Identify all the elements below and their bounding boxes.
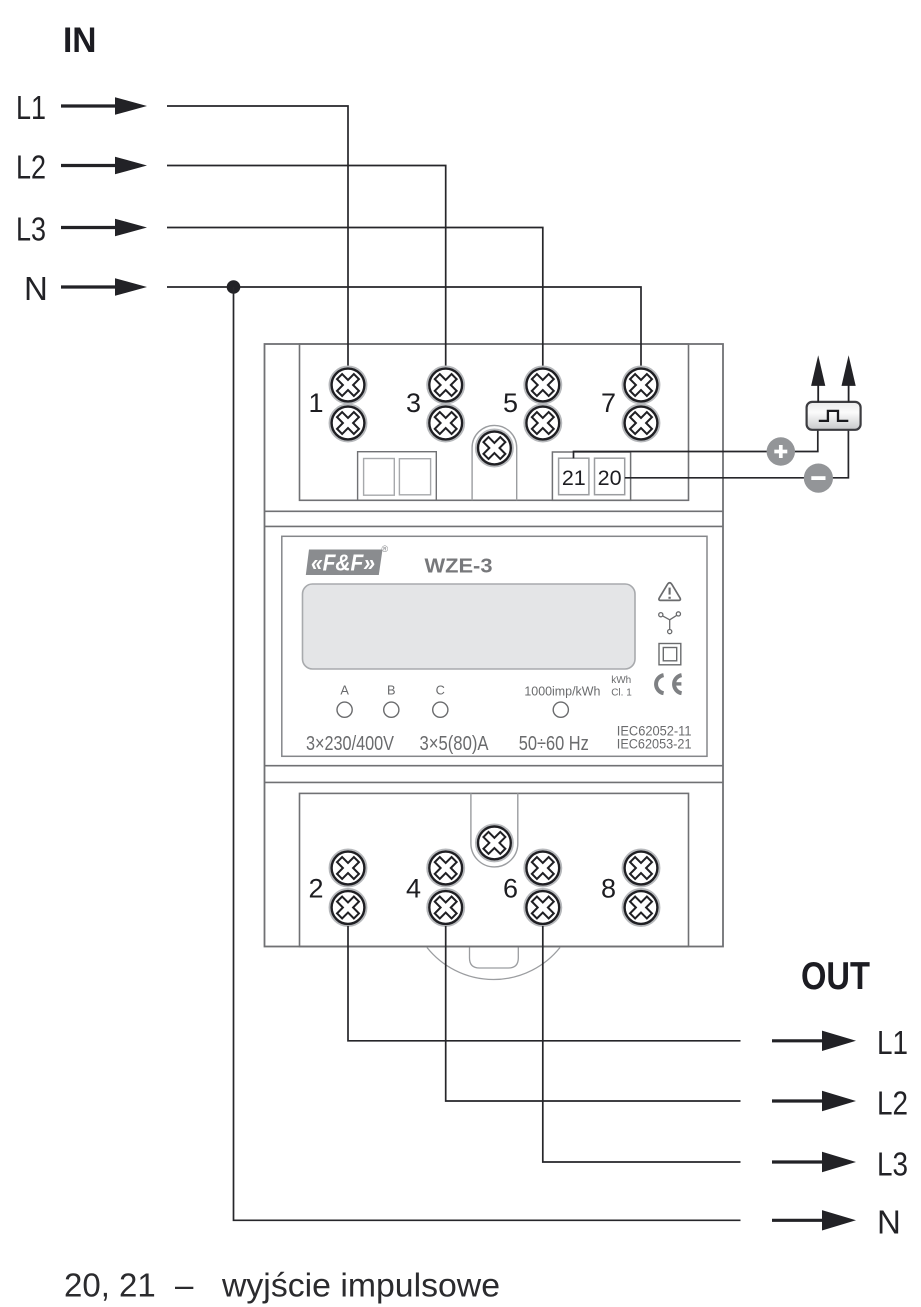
junction node N xyxy=(227,280,241,294)
face panel xyxy=(282,536,707,756)
svg-text:A: A xyxy=(340,682,349,697)
svg-text:3×5(80)A: 3×5(80)A xyxy=(420,732,489,755)
svg-text:3: 3 xyxy=(406,388,421,418)
terminal 5 xyxy=(524,367,561,442)
arrow L2 in xyxy=(61,157,147,175)
svg-text:6: 6 xyxy=(503,874,518,904)
terminal 7 xyxy=(623,367,660,442)
device outline (meter housing) xyxy=(265,344,724,947)
arrow N out xyxy=(772,1210,856,1230)
svg-text:L3: L3 xyxy=(877,1146,908,1183)
terminal 4 xyxy=(427,850,464,927)
svg-text:L3: L3 xyxy=(16,211,46,248)
svg-text:50÷60 Hz: 50÷60 Hz xyxy=(519,732,589,755)
kWh Cl.1 text xyxy=(611,675,632,699)
svg-text:1000imp/kWh: 1000imp/kWh xyxy=(524,684,600,699)
LCD display xyxy=(303,584,636,669)
pulse out arrow left xyxy=(811,355,825,402)
wire out L3 xyxy=(543,926,741,1162)
bottom center screw xyxy=(476,824,513,861)
terminal 21 box xyxy=(559,458,589,495)
svg-text:IN: IN xyxy=(63,21,97,60)
svg-text:kWh: kWh xyxy=(611,675,631,686)
svg-text:C: C xyxy=(436,682,445,697)
arrow L3 out xyxy=(772,1152,856,1172)
svg-text:N: N xyxy=(24,270,48,307)
DIN clip tab xyxy=(470,948,519,969)
svg-text:L1: L1 xyxy=(16,89,46,126)
pulse symbol xyxy=(819,411,849,421)
LED A xyxy=(337,702,352,717)
arrow L1 in xyxy=(61,97,147,115)
pulse receiver box xyxy=(807,402,861,430)
svg-text:Cl. 1: Cl. 1 xyxy=(611,688,632,699)
top terminal box xyxy=(300,344,689,500)
divider line 2 xyxy=(265,525,724,527)
svg-text:WZE-3: WZE-3 xyxy=(425,555,493,578)
divider line 4 xyxy=(265,781,724,783)
svg-text:L1: L1 xyxy=(877,1024,908,1061)
aux window left square xyxy=(364,459,395,496)
arrow L3 in xyxy=(61,219,147,237)
plus node xyxy=(767,437,795,465)
terminal 21-20 group box xyxy=(552,452,630,500)
terminal 3 xyxy=(427,367,464,442)
divider line 3 xyxy=(265,765,724,767)
svg-text:L2: L2 xyxy=(877,1085,908,1122)
terminal 6 xyxy=(524,850,561,927)
LED imp xyxy=(553,702,568,717)
top center screw xyxy=(476,430,513,467)
svg-text:5: 5 xyxy=(503,388,518,418)
svg-text:N: N xyxy=(877,1204,901,1241)
svg-text:1: 1 xyxy=(308,388,323,418)
svg-text:3×230/400V: 3×230/400V xyxy=(306,732,394,755)
arrow N in xyxy=(61,278,147,296)
DIN clip arc xyxy=(427,948,560,980)
terminal 2 xyxy=(330,850,367,927)
arrow L1 out xyxy=(772,1031,856,1051)
top center screw arch xyxy=(472,425,517,500)
aux window right square xyxy=(399,459,430,495)
terminal 8 xyxy=(623,850,660,927)
wire L3 in xyxy=(167,228,543,368)
wire out L2 xyxy=(446,926,741,1101)
svg-text:OUT: OUT xyxy=(801,955,870,998)
LED C xyxy=(433,702,448,717)
wire N in xyxy=(167,287,641,367)
wire L2 in xyxy=(167,166,446,368)
pulse out arrow right xyxy=(842,355,856,402)
svg-text:«F&F»: «F&F» xyxy=(311,550,375,576)
wire 20 to minus xyxy=(625,430,849,478)
arrow L2 out xyxy=(772,1091,856,1111)
bottom terminal box xyxy=(300,793,689,946)
svg-text:20, 21–wyjście impulsowe: 20, 21–wyjście impulsowe xyxy=(64,1267,500,1304)
network icon xyxy=(659,612,681,634)
class II insulation icon xyxy=(659,644,681,665)
LED B xyxy=(384,702,399,717)
terminal 20 box xyxy=(595,458,625,495)
svg-text:®: ® xyxy=(382,544,389,554)
terminal 1 xyxy=(330,367,367,442)
aux window frame xyxy=(358,452,437,501)
svg-text:2: 2 xyxy=(308,874,323,904)
wire out L1 xyxy=(348,926,741,1041)
F&F logo xyxy=(306,544,389,576)
svg-text:IEC62053-21: IEC62053-21 xyxy=(617,736,692,752)
minus node xyxy=(804,464,833,493)
warning icon xyxy=(659,583,681,601)
svg-text:4: 4 xyxy=(406,874,421,904)
CE mark xyxy=(656,675,682,693)
divider line 1 xyxy=(265,510,724,512)
wire 21 to plus xyxy=(574,430,818,458)
svg-text:8: 8 xyxy=(601,874,616,904)
svg-text:L2: L2 xyxy=(16,149,46,186)
wire L1 in xyxy=(167,106,348,367)
svg-text:20: 20 xyxy=(598,466,622,490)
bottom center screw arch xyxy=(471,793,518,867)
svg-text:7: 7 xyxy=(601,388,616,418)
wire N down to out xyxy=(234,287,741,1220)
svg-text:21: 21 xyxy=(562,466,586,490)
svg-text:B: B xyxy=(387,682,396,697)
